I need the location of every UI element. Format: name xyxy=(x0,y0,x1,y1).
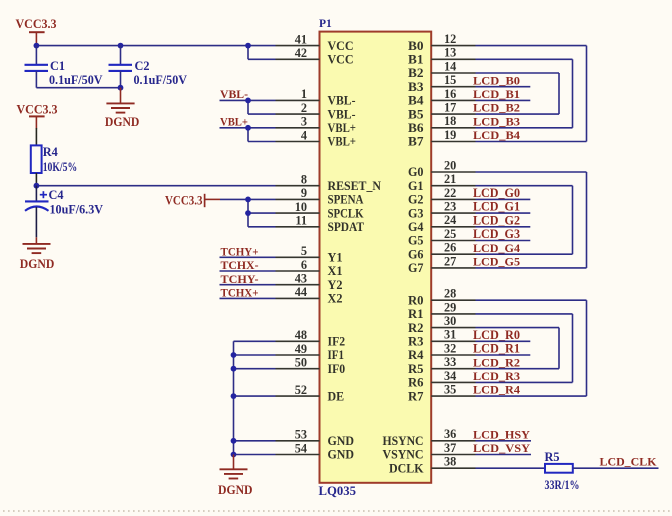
svg-text:LCD_B3: LCD_B3 xyxy=(473,116,520,128)
svg-text:LCD_G1: LCD_G1 xyxy=(473,200,520,214)
svg-text:14: 14 xyxy=(444,59,456,73)
wire LCD_VSY xyxy=(476,454,532,456)
pin 10 (SPCLK) xyxy=(276,200,364,220)
svg-text:34: 34 xyxy=(444,369,456,383)
resistor R4 xyxy=(31,145,77,174)
junction R4/C4/pin8 xyxy=(34,183,40,189)
svg-text:LCD_G0: LCD_G0 xyxy=(473,186,520,200)
svg-text:33: 33 xyxy=(444,355,456,369)
svg-text:9: 9 xyxy=(301,186,307,200)
wire to pin 49 xyxy=(234,354,276,356)
svg-text:4: 4 xyxy=(301,128,307,142)
svg-text:X2: X2 xyxy=(328,292,343,306)
junction VBL- xyxy=(245,98,251,104)
pin 4 (VBL+) xyxy=(276,128,357,148)
pin 12 (B0) xyxy=(408,32,476,53)
svg-text:VCC3.3: VCC3.3 xyxy=(16,16,57,31)
pin 1 (VBL-) xyxy=(276,87,356,107)
pin 34 (R6) xyxy=(408,369,476,390)
pin 27 (G7) xyxy=(408,254,476,275)
wire LCD_B4 xyxy=(476,141,587,143)
svg-text:35: 35 xyxy=(444,383,456,397)
svg-text:R3: R3 xyxy=(408,335,424,349)
wire to pin 42 xyxy=(248,58,276,60)
svg-text:LCD_CLK: LCD_CLK xyxy=(600,456,657,468)
capacitor C1 xyxy=(25,46,103,88)
wire TCHX+ xyxy=(220,297,276,299)
wire DCLK to R5 xyxy=(476,467,546,469)
svg-text:31: 31 xyxy=(444,328,456,342)
wire LCD_G5 xyxy=(476,267,587,269)
wire mid loop vertical (R) xyxy=(572,314,574,383)
svg-text:37: 37 xyxy=(444,441,456,455)
pin 43 (Y2) xyxy=(276,272,343,292)
svg-text:3: 3 xyxy=(301,115,307,129)
junction pin54 xyxy=(231,452,237,458)
svg-text:B2: B2 xyxy=(408,66,424,80)
wire VCC to R4 xyxy=(35,128,37,145)
wire pin30 to inner loop xyxy=(476,327,560,329)
pin 36 (HSYNC) xyxy=(383,427,476,448)
wire vertical pin3-pin4 xyxy=(247,128,249,142)
svg-text:GND: GND xyxy=(328,434,355,448)
junction pin53 xyxy=(231,438,237,444)
wire TCHY+ xyxy=(220,256,276,258)
wire LCD_R1 xyxy=(476,354,531,356)
pin 8 (RESET_N) xyxy=(276,173,382,193)
pin 31 (R3) xyxy=(408,328,476,349)
power VCC3.3 (above R4) xyxy=(17,102,58,129)
junction VBL+ xyxy=(245,125,251,131)
svg-text:33R/1%: 33R/1% xyxy=(545,478,580,492)
wire pin13 to mid loop xyxy=(476,58,573,60)
pin 52 (DE) xyxy=(276,383,345,403)
svg-text:G6: G6 xyxy=(408,247,424,261)
svg-text:SPCLK: SPCLK xyxy=(328,206,364,220)
svg-text:R1: R1 xyxy=(408,307,424,321)
svg-text:DGND: DGND xyxy=(20,257,55,271)
wire LCD_R4 xyxy=(476,395,587,397)
pin 9 (SPENA) xyxy=(276,186,364,206)
svg-text:20: 20 xyxy=(444,158,456,172)
wire mid loop vertical (B) xyxy=(572,59,574,128)
wire LCD_HSY xyxy=(476,440,532,442)
svg-text:38: 38 xyxy=(444,455,456,469)
svg-text:RESET_N: RESET_N xyxy=(328,179,382,193)
pin 26 (G6) xyxy=(408,241,476,262)
pin 25 (G5) xyxy=(408,227,476,248)
wire R4 to node xyxy=(35,173,37,186)
pin 35 (R7) xyxy=(408,383,476,404)
junction pin50 xyxy=(231,366,237,372)
wire to pin 2 xyxy=(248,113,276,115)
svg-text:LCD_G5: LCD_G5 xyxy=(473,257,520,269)
svg-text:R7: R7 xyxy=(408,389,424,403)
pin 38 (DCLK) xyxy=(389,455,476,476)
svg-text:VCC3.3: VCC3.3 xyxy=(165,192,203,207)
svg-text:LCD_R4: LCD_R4 xyxy=(473,385,520,397)
wire node to pin 8 xyxy=(36,185,275,187)
wire pin28 to outer loop xyxy=(476,299,587,301)
svg-text:SPDAT: SPDAT xyxy=(328,220,365,234)
svg-text:6: 6 xyxy=(301,258,307,272)
wire LCD_R3 xyxy=(476,381,573,383)
svg-text:54: 54 xyxy=(295,441,307,455)
wire R5 to LCD_CLK xyxy=(573,467,659,469)
power VCC3.3 (SPENA node) xyxy=(165,192,220,207)
wire outer loop vertical (R) xyxy=(586,300,588,396)
svg-text:52: 52 xyxy=(295,383,307,397)
svg-text:29: 29 xyxy=(444,300,456,314)
wire LCD_B0 xyxy=(476,86,531,88)
wire LCD_B1 xyxy=(476,99,531,101)
wire pin14 to inner loop xyxy=(476,72,560,74)
svg-text:X1: X1 xyxy=(328,264,343,278)
svg-text:32: 32 xyxy=(444,341,456,355)
svg-text:LCD_R1: LCD_R1 xyxy=(473,342,520,356)
svg-text:LCD_B2: LCD_B2 xyxy=(473,103,520,115)
pin 13 (B1) xyxy=(408,46,476,67)
junction rail/C2 xyxy=(118,43,124,49)
svg-text:LCD_G2: LCD_G2 xyxy=(473,213,520,227)
svg-text:LQ035: LQ035 xyxy=(319,484,357,498)
svg-text:DGND: DGND xyxy=(105,115,139,129)
svg-text:13: 13 xyxy=(444,46,456,60)
svg-text:G5: G5 xyxy=(408,234,424,248)
svg-text:LCD_HSY: LCD_HSY xyxy=(473,429,531,441)
power VCC3.3 (top left) xyxy=(16,16,57,45)
svg-text:10uF/6.3V: 10uF/6.3V xyxy=(50,202,104,216)
pin 5 (Y1) xyxy=(276,244,343,264)
wire pin20 to outer loop xyxy=(476,171,587,173)
wire pin21 to mid loop xyxy=(476,185,573,187)
svg-text:TCHY+: TCHY+ xyxy=(221,245,259,259)
svg-text:0.1uF/50V: 0.1uF/50V xyxy=(49,73,103,87)
svg-text:C4: C4 xyxy=(49,188,64,202)
svg-text:B4: B4 xyxy=(408,94,424,108)
svg-text:G2: G2 xyxy=(408,193,424,207)
pin 32 (R4) xyxy=(408,341,476,362)
pin 22 (G2) xyxy=(408,186,476,207)
svg-text:8: 8 xyxy=(301,173,307,187)
wire VBL- to pin 1 xyxy=(220,99,276,101)
pin 18 (B6) xyxy=(408,114,476,135)
svg-text:24: 24 xyxy=(444,213,456,227)
wire outer loop vertical (B) xyxy=(586,46,588,142)
pin 54 (GND) xyxy=(276,441,355,461)
svg-text:G4: G4 xyxy=(408,220,424,234)
svg-text:R6: R6 xyxy=(408,376,424,390)
svg-text:44: 44 xyxy=(295,285,307,299)
pin 48 (IF2) xyxy=(276,328,346,348)
wire inner loop vertical (R) xyxy=(558,328,560,369)
svg-text:TCHX-: TCHX- xyxy=(221,258,259,272)
svg-text:LCD_R2: LCD_R2 xyxy=(473,357,520,369)
wire to pin 52 xyxy=(234,395,276,397)
svg-text:LCD_B0: LCD_B0 xyxy=(473,75,520,87)
svg-text:VBL-: VBL- xyxy=(220,87,248,101)
wire LCD_G2 xyxy=(476,226,531,228)
pin 44 (X2) xyxy=(276,285,343,305)
wire LCD_B2 xyxy=(476,113,560,115)
svg-text:21: 21 xyxy=(444,172,456,186)
svg-text:30: 30 xyxy=(444,314,456,328)
svg-text:VBL+: VBL+ xyxy=(220,115,248,129)
pin 50 (IF0) xyxy=(276,356,346,376)
pin 15 (B3) xyxy=(408,73,476,94)
svg-text:27: 27 xyxy=(444,254,456,268)
svg-text:IF0: IF0 xyxy=(328,362,346,376)
svg-text:LCD_VSY: LCD_VSY xyxy=(473,443,531,455)
pin 33 (R5) xyxy=(408,355,476,376)
pin 28 (R0) xyxy=(408,287,476,308)
capacitor C4 (polarized) xyxy=(25,186,103,238)
pin 16 (B4) xyxy=(408,87,476,108)
svg-text:12: 12 xyxy=(444,32,456,46)
svg-text:50: 50 xyxy=(295,356,307,370)
svg-text:B5: B5 xyxy=(408,107,424,121)
svg-text:VBL-: VBL- xyxy=(328,107,356,121)
svg-text:VCC: VCC xyxy=(328,39,354,53)
svg-text:16: 16 xyxy=(444,87,456,101)
svg-text:48: 48 xyxy=(295,328,307,342)
svg-text:LCD_B4: LCD_B4 xyxy=(473,130,520,142)
svg-text:SPENA: SPENA xyxy=(328,193,364,207)
wire vertical pin1-pin2 xyxy=(247,100,249,114)
wire pin12 to outer loop xyxy=(476,45,587,47)
svg-text:VCC: VCC xyxy=(328,53,354,67)
junction pin10 xyxy=(245,210,251,216)
svg-text:18: 18 xyxy=(444,114,456,128)
svg-text:0.1uF/50V: 0.1uF/50V xyxy=(134,73,188,87)
svg-text:42: 42 xyxy=(295,46,307,60)
svg-text:R0: R0 xyxy=(408,293,424,307)
pin 37 (VSYNC) xyxy=(383,441,476,462)
wire to pin 10 xyxy=(248,212,276,214)
pin 30 (R2) xyxy=(408,314,476,335)
svg-text:C1: C1 xyxy=(50,59,65,73)
svg-text:28: 28 xyxy=(444,287,456,301)
wire to pin 11 xyxy=(248,226,276,228)
svg-text:TCHY-: TCHY- xyxy=(221,272,259,286)
junction rail/C1 xyxy=(34,43,40,49)
svg-text:DGND: DGND xyxy=(218,483,253,497)
wire pin 48 branch xyxy=(234,340,276,342)
svg-text:R2: R2 xyxy=(408,321,424,335)
svg-text:B1: B1 xyxy=(408,53,424,67)
pin 49 (IF1) xyxy=(276,342,345,362)
pin 6 (X1) xyxy=(276,258,343,278)
svg-text:G0: G0 xyxy=(408,165,424,179)
svg-text:LCD_R0: LCD_R0 xyxy=(473,328,520,342)
svg-text:TCHX+: TCHX+ xyxy=(221,286,259,300)
wire to pin 4 xyxy=(248,141,276,143)
wire VBL+ to pin 3 xyxy=(220,127,276,129)
svg-text:IF1: IF1 xyxy=(328,348,345,362)
svg-text:36: 36 xyxy=(444,427,456,441)
pin 23 (G3) xyxy=(408,200,476,221)
svg-text:LCD_R3: LCD_R3 xyxy=(473,371,520,383)
svg-text:R4: R4 xyxy=(43,145,58,159)
junction pin52 xyxy=(231,393,237,399)
wire LCD_G0 xyxy=(476,198,531,200)
svg-text:G3: G3 xyxy=(408,206,424,220)
pin 2 (VBL-) xyxy=(276,101,356,121)
svg-text:VBL+: VBL+ xyxy=(328,121,357,135)
svg-text:B7: B7 xyxy=(408,135,424,149)
svg-text:G7: G7 xyxy=(408,261,424,275)
svg-text:Y1: Y1 xyxy=(328,251,343,265)
svg-text:VBL-: VBL- xyxy=(328,94,356,108)
pin 24 (G4) xyxy=(408,213,476,234)
wire to pin 54 xyxy=(234,454,276,456)
svg-text:10: 10 xyxy=(295,200,307,214)
wire C1 bottom to C2 bottom xyxy=(36,87,120,89)
svg-text:1: 1 xyxy=(301,87,307,101)
wire pin29 to mid loop xyxy=(476,313,573,315)
pin 11 (SPDAT) xyxy=(276,214,365,234)
svg-text:B3: B3 xyxy=(408,80,424,94)
pin 20 (G0) xyxy=(408,158,476,179)
svg-text:LCD_G3: LCD_G3 xyxy=(473,227,520,241)
pin 29 (R1) xyxy=(408,300,476,321)
svg-text:11: 11 xyxy=(295,214,307,228)
svg-text:HSYNC: HSYNC xyxy=(383,434,424,448)
svg-text:LCD_B1: LCD_B1 xyxy=(473,89,520,101)
wire TCHX- xyxy=(220,270,276,272)
svg-text:B0: B0 xyxy=(408,39,424,53)
junction pin49 xyxy=(231,352,237,358)
pin 19 (B7) xyxy=(408,128,476,149)
ground DGND (under C4) xyxy=(20,237,55,270)
svg-text:B6: B6 xyxy=(408,121,424,135)
junction rail/pin42 branch xyxy=(245,43,251,49)
svg-text:DCLK: DCLK xyxy=(389,461,424,475)
wire LCD_G4 xyxy=(476,253,573,255)
svg-text:49: 49 xyxy=(295,342,307,356)
svg-text:41: 41 xyxy=(295,32,307,46)
svg-text:2: 2 xyxy=(301,101,307,115)
wire LCD_G1 xyxy=(476,212,531,214)
svg-text:DE: DE xyxy=(328,389,345,403)
svg-text:R5: R5 xyxy=(408,362,424,376)
resistor R5 xyxy=(545,450,580,492)
connector P1 body xyxy=(320,32,432,483)
svg-text:VBL+: VBL+ xyxy=(328,135,357,149)
wire vertical to pin 42 xyxy=(247,46,249,60)
svg-text:IF2: IF2 xyxy=(328,335,346,349)
svg-text:R5: R5 xyxy=(545,450,560,464)
capacitor C2 xyxy=(109,46,188,88)
svg-text:C2: C2 xyxy=(135,59,150,73)
wire mid loop vertical (G) xyxy=(572,186,574,255)
wire inner loop vertical (B) xyxy=(558,73,560,114)
wire to pin 53 xyxy=(234,440,276,442)
svg-text:53: 53 xyxy=(295,428,307,442)
svg-text:Y2: Y2 xyxy=(328,278,343,292)
ground DGND (under C2) xyxy=(105,88,139,129)
wire LCD_R2 xyxy=(476,368,560,370)
wire LCD_G3 xyxy=(476,240,531,242)
svg-text:23: 23 xyxy=(444,200,456,214)
svg-text:26: 26 xyxy=(444,241,456,255)
ground DGND (under pin 54) xyxy=(218,455,253,498)
pin 3 (VBL+) xyxy=(276,115,357,135)
svg-text:25: 25 xyxy=(444,227,456,241)
svg-text:P1: P1 xyxy=(319,18,332,30)
svg-text:19: 19 xyxy=(444,128,456,142)
wire TCHY- xyxy=(220,284,276,286)
svg-text:22: 22 xyxy=(444,186,456,200)
svg-text:17: 17 xyxy=(444,101,456,115)
junction pin9 xyxy=(245,197,251,203)
svg-text:GND: GND xyxy=(328,448,355,462)
svg-text:43: 43 xyxy=(295,272,307,286)
pin 17 (B5) xyxy=(408,101,476,122)
wire VCC rail to pin 41 xyxy=(36,45,275,47)
svg-text:5: 5 xyxy=(301,244,307,258)
pin 21 (G1) xyxy=(408,172,476,193)
svg-text:VSYNC: VSYNC xyxy=(383,448,424,462)
wire LCD_R0 xyxy=(476,340,531,342)
wire vertical pins 9-11 xyxy=(247,199,249,226)
junction C2/ground xyxy=(118,85,124,91)
svg-text:10K/5%: 10K/5% xyxy=(43,160,77,174)
svg-text:VCC3.3: VCC3.3 xyxy=(17,102,58,117)
wire VCC3.3 to pin 9 xyxy=(220,198,276,200)
pin 41 (VCC) xyxy=(276,32,354,52)
pin 14 (B2) xyxy=(408,59,476,80)
svg-text:LCD_G4: LCD_G4 xyxy=(473,243,520,255)
wire outer loop vertical (G) xyxy=(586,172,588,268)
wire LCD_B3 xyxy=(476,127,573,129)
svg-text:G1: G1 xyxy=(408,179,424,193)
wire vertical bus pins 48-54 xyxy=(233,341,235,454)
svg-text:R4: R4 xyxy=(408,348,424,362)
wire to pin 50 xyxy=(234,368,276,370)
pin 42 (VCC) xyxy=(276,46,354,66)
svg-text:15: 15 xyxy=(444,73,456,87)
pin 53 (GND) xyxy=(276,428,355,448)
